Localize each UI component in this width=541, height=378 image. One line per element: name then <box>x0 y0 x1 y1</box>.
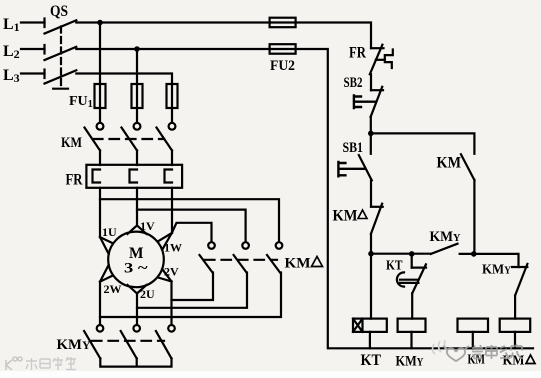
switch QS linkage end bar <box>53 88 68 90</box>
wire phase 2 drop to fuse <box>136 49 138 123</box>
contactor KM-delta linkage dashed <box>205 259 277 261</box>
motor terminal fan 2U <box>128 285 147 294</box>
svg-text:KM: KM <box>437 155 462 172</box>
svg-text:1W: 1W <box>164 241 182 255</box>
wire L2 lead-in <box>21 48 45 50</box>
contactor KM main contact 3 terminal circle <box>169 123 176 130</box>
contactor KM-star linkage dashed <box>92 340 164 342</box>
svg-text:KM: KM <box>285 256 311 272</box>
coil KT rectangle with X cell <box>353 319 387 332</box>
svg-text:2U: 2U <box>140 287 155 301</box>
node L2-phase2 junction dot <box>134 46 140 52</box>
wire SB1 to KM-delta NC <box>370 180 372 206</box>
svg-text:3 ~: 3 ~ <box>124 261 148 277</box>
wire branch phase2 to KM-delta contact 2 <box>137 210 246 243</box>
contactor KM main contact 3 blade <box>157 128 173 151</box>
wire phase 3 FR to motor 1W <box>171 188 173 233</box>
wire L1 bus to control column <box>76 23 371 49</box>
node L1-phase1 junction dot <box>97 20 103 26</box>
KT delay symbol <box>397 272 419 286</box>
svg-text:KT: KT <box>361 352 382 369</box>
fuse FU1 phase 1 <box>95 84 106 108</box>
coil KM-delta rectangle <box>500 319 531 332</box>
svg-text:FR: FR <box>66 172 83 189</box>
svg-text:1U: 1U <box>102 225 117 239</box>
svg-text:QS: QS <box>50 3 68 20</box>
wire node A down to SB1 <box>370 133 372 153</box>
switch QS pole 3 fixed tick <box>43 70 45 79</box>
wire KT branch down <box>411 254 413 268</box>
contactor KM main contact 1 blade <box>85 128 101 151</box>
svg-text:SB2: SB2 <box>344 75 363 91</box>
motor terminal fan 1V <box>128 225 147 234</box>
wire coil KM-delta to bottom bus <box>514 332 516 348</box>
switch QS pole 2 blade <box>45 47 77 60</box>
motor terminal fan 2V <box>158 269 172 281</box>
thermal relay FR heater 1 <box>93 170 101 183</box>
wire phase 1 drop to fuse <box>99 23 101 123</box>
contactor KM-delta contact 2 blade <box>234 255 247 273</box>
contactor KM-star bottom contact 1 terminal circle <box>97 325 104 332</box>
contact KM-star NC blade (right branch) <box>515 264 527 296</box>
wire phase 2 FR to motor 1V <box>136 188 138 226</box>
wire star point bus <box>100 359 171 367</box>
contactor KM-star bottom contact 2 terminal circle <box>133 325 140 332</box>
wire node A to KM self-hold branch <box>371 133 475 153</box>
motor terminal fan 1U <box>100 237 113 254</box>
button SB2 NC blade <box>371 87 383 117</box>
wire coil KT to bottom bus <box>369 332 371 348</box>
contactor KM-delta contact 2 terminal circle <box>242 242 249 249</box>
svg-text:KMY: KMY <box>57 337 91 353</box>
motor terminal fan 2W <box>100 265 113 282</box>
wire L3 lead-in <box>21 72 45 74</box>
fuse FU1 phase 2 <box>132 84 143 108</box>
wire L3 to phase 3 drop <box>76 74 172 85</box>
wire L1 lead-in <box>21 21 45 23</box>
watermark bottom-right heart and text <box>443 346 469 361</box>
wire KMy NC to KM-delta coil <box>514 296 516 319</box>
wire node row left section <box>371 253 431 255</box>
wire FR to SB2 <box>370 74 372 90</box>
svg-text:KMY: KMY <box>430 229 461 245</box>
contact FR control NC blade <box>370 45 383 75</box>
FR control thermal symbol <box>385 50 393 69</box>
svg-text:KT: KT <box>386 259 403 274</box>
wire L2 bus to FU2 and right-side drop to bottom bus <box>76 49 533 348</box>
contact FR control NC tick <box>371 47 384 49</box>
coil KM rectangle <box>458 319 489 332</box>
contact KM self-hold NO blade <box>461 154 475 180</box>
button SB2 actuator E <box>354 96 376 109</box>
watermark bottom-left logo and text <box>6 357 22 370</box>
contactor KM-delta contact 3 terminal circle <box>276 242 283 249</box>
thermal relay FR box <box>86 165 182 188</box>
contact KT delayed NC tick <box>412 267 426 269</box>
fuse FU1 phase 3 <box>167 84 178 108</box>
svg-text:FR: FR <box>349 45 366 62</box>
wire 2U branch to KM-delta contact 2 hinge <box>137 273 247 308</box>
wire KM-delta NC to node B <box>370 234 372 254</box>
wire coil KM to bottom bus <box>472 332 474 348</box>
wire 2W branch to KM-delta contact 3 hinge <box>100 273 281 318</box>
watermark bottom-right hands splash <box>433 340 446 354</box>
contact KM-delta NC tick <box>371 206 383 208</box>
contactor KM-star bottom contact 3 blade <box>156 331 172 359</box>
contactor KM main contact 2 blade <box>122 128 138 151</box>
svg-text:2V: 2V <box>164 265 179 279</box>
coil KMy rectangle <box>398 319 426 332</box>
contact KM-star aux NO blade (horizontal) <box>431 244 458 254</box>
motor M circle <box>108 232 164 288</box>
svg-text:KMY: KMY <box>396 354 425 370</box>
wire phase 3 drop through fuse <box>171 84 173 123</box>
FR control thermal symbol link <box>376 59 385 61</box>
wire branch phase1 to KM-delta contact 3 <box>100 199 279 242</box>
button SB1 NO blade <box>359 155 372 180</box>
wire phase 1 KM to FR <box>99 151 101 166</box>
wire node row right section to KM-star NC branch corner <box>460 254 519 267</box>
wire 2V drop to star contact 3 <box>170 282 172 325</box>
wire phase 1 FR to motor 1U <box>99 188 101 237</box>
fuse FU2 on L2 <box>270 44 296 54</box>
wire 2W drop to star contact 1 <box>99 282 101 325</box>
node KT-branch junction dot <box>409 251 415 257</box>
switch QS pole 2 fixed tick <box>43 45 45 54</box>
wire coil KMy to bottom bus <box>410 332 412 348</box>
node A junction dot <box>368 131 374 137</box>
contactor KM-delta contact 1 blade <box>200 255 213 273</box>
thermal relay FR heater 2 <box>130 170 138 183</box>
wire SB2 to node A <box>370 117 372 133</box>
svg-text:KM: KM <box>61 135 82 151</box>
svg-text:FU2: FU2 <box>270 58 295 74</box>
button SB2 NC tick <box>371 89 383 91</box>
contactor KM main contact 2 terminal circle <box>134 123 141 130</box>
motor terminal fan 1W <box>158 233 172 250</box>
contactor KM-star bottom contact 3 terminal circle <box>168 325 175 332</box>
contactor KM-delta contact 1 terminal circle <box>208 242 215 249</box>
contactor KM main linkage dashed <box>93 138 164 140</box>
thermal relay FR heater 3 <box>165 170 173 183</box>
switch QS pole 1 blade <box>45 20 77 33</box>
switch QS pole 3 blade <box>45 70 77 83</box>
svg-text:1V: 1V <box>140 219 155 233</box>
contact KT delayed NC blade <box>412 264 426 293</box>
wire node B to KT coil <box>370 254 372 319</box>
wire 1W to KM-delta contact 1 <box>172 223 212 242</box>
contactor KM-star bottom contact 1 blade <box>84 331 100 359</box>
fuse top-right on L1 <box>270 18 296 28</box>
wire phase 3 KM to FR <box>171 151 173 166</box>
contactor KM-star bottom contact 2 blade <box>121 331 137 359</box>
wire 2V branch to KM-delta contact 1 hinge <box>172 273 214 301</box>
contact KM-delta NC blade <box>371 204 382 234</box>
contactor KM-delta contact 3 blade <box>267 255 280 273</box>
contactor KM main contact 1 terminal circle <box>97 123 104 130</box>
svg-text:SB1: SB1 <box>343 140 364 156</box>
node B junction dot <box>368 251 374 257</box>
svg-text:KM: KM <box>333 208 358 225</box>
contact KM-star NC tick (right branch) <box>512 266 527 268</box>
svg-text:2W: 2W <box>104 282 122 296</box>
button SB1 actuator E <box>338 162 365 176</box>
svg-text:KM: KM <box>503 354 525 369</box>
svg-text:M: M <box>129 245 144 262</box>
wire KT contact to KMy coil <box>411 293 413 318</box>
node KM-branch junction dot <box>471 251 477 257</box>
wire phase 2 KM to FR <box>136 151 138 166</box>
switch QS pole 1 fixed tick <box>43 19 45 28</box>
wire KM branch down to node row <box>473 180 475 254</box>
switch QS linkage dashed <box>60 27 62 89</box>
wire 2U drop to star contact 2 <box>136 293 138 325</box>
